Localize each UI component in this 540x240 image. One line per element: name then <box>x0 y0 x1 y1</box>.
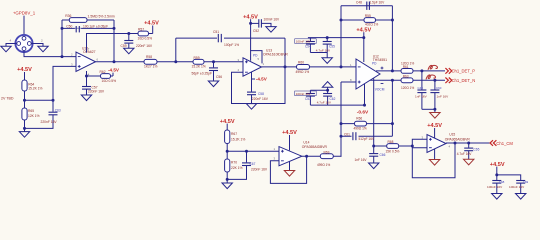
junction U12 IN- feedback tap <box>340 65 343 68</box>
junction node n2 <box>212 60 215 63</box>
capacitor C55 <box>316 38 335 53</box>
power port +GPD8V_1 <box>13 11 36 16</box>
svg-text:C51: C51 <box>213 30 219 34</box>
ground C57 <box>81 95 91 101</box>
wire connector right pin to ground <box>31 44 43 47</box>
port Ch1_DET_N <box>445 78 475 84</box>
ground C65 <box>464 159 474 165</box>
junction bias node left <box>23 99 26 102</box>
resistor R70 <box>225 151 243 172</box>
port Ch1_CM <box>490 140 513 146</box>
wire cluster top rail <box>310 89 327 91</box>
junction R66 left <box>340 122 343 125</box>
power port +4.5V above U14 <box>282 130 297 150</box>
svg-text:22K 1%: 22K 1% <box>231 166 243 170</box>
svg-text:R57: R57 <box>138 28 144 32</box>
noerc marker lower <box>426 75 435 79</box>
capacitor C60 on OUT- <box>430 80 449 109</box>
wire R60 to U12 IN- <box>310 66 357 68</box>
power port -4.5V below U13 <box>252 76 268 81</box>
junction OUT+ cap tap <box>420 69 423 72</box>
svg-text:C61: C61 <box>344 132 350 136</box>
svg-text:C54: C54 <box>305 45 311 49</box>
svg-text:R62: R62 <box>100 70 106 74</box>
svg-text:R66: R66 <box>356 116 362 120</box>
wire ground stub outputs <box>434 109 436 112</box>
svg-text:100.1pF ±0.05pF: 100.1pF ±0.05pF <box>83 25 108 29</box>
power port +4.5V above U12 <box>356 27 371 37</box>
svg-text:Ch1_DET_P: Ch1_DET_P <box>452 68 476 73</box>
svg-text:R63: R63 <box>403 75 409 79</box>
svg-text:R70: R70 <box>231 161 237 165</box>
ground C58 <box>246 104 256 110</box>
U12 polarity marks <box>358 67 361 84</box>
wire feedback left vertical <box>61 20 63 57</box>
junction bias node right <box>52 99 55 102</box>
power port +4.5V above U15 <box>427 123 442 138</box>
capacitor C69 <box>509 180 529 194</box>
power port +4.5V above R57 <box>144 21 159 34</box>
svg-text:VOCM: VOCM <box>375 87 385 91</box>
wire U12 IN+ feedback vertical <box>340 82 342 157</box>
wire divider node to U14 IN+ <box>227 150 279 152</box>
svg-text:120Ω 1%: 120Ω 1% <box>401 86 414 90</box>
svg-text:1.5pF 16V: 1.5pF 16V <box>370 1 386 5</box>
ground left of connector <box>1 46 11 52</box>
resistor R62 <box>87 70 117 83</box>
svg-text:C58: C58 <box>258 92 264 96</box>
junction OUT- feedback <box>391 79 394 82</box>
wire U13 output <box>262 66 297 68</box>
svg-text:220nF 16V: 220nF 16V <box>41 120 58 124</box>
plus mark OUT+ <box>381 67 384 70</box>
junction C50 left <box>61 27 64 30</box>
junction VCM divider node <box>226 150 229 153</box>
ground C59 <box>124 48 134 54</box>
wire R67 to node <box>226 144 228 152</box>
ground U14 <box>284 171 294 177</box>
port Ch1_DET_P <box>445 68 475 74</box>
wire U14 V- stub <box>289 161 291 171</box>
svg-text:220nF 16V: 220nF 16V <box>136 44 153 48</box>
svg-text:OPA365AIDBVR: OPA365AIDBVR <box>445 138 471 142</box>
svg-text:+4.5V: +4.5V <box>490 162 505 168</box>
svg-text:1nF 16V: 1nF 16V <box>437 95 450 99</box>
svg-text:R65: R65 <box>28 109 34 113</box>
svg-text:Ch1_CM: Ch1_CM <box>496 141 513 146</box>
pin 2 label <box>41 39 43 43</box>
wire U12 IN+ entry <box>341 81 356 83</box>
capacitor C62 <box>317 90 336 105</box>
wire divider ground stub <box>226 179 228 183</box>
wire C51 line down to U13 output node <box>284 38 286 67</box>
svg-text:R55: R55 <box>365 14 371 18</box>
op-amp U16 <box>76 52 96 72</box>
junction bottom right node <box>495 173 498 176</box>
svg-text:220nF 16V: 220nF 16V <box>251 167 268 171</box>
ground output caps <box>430 113 440 119</box>
svg-text:10Ω 0.5%: 10Ω 0.5% <box>102 79 117 83</box>
wire U15 output <box>446 142 490 144</box>
wire cluster bottom rail <box>310 52 327 54</box>
svg-text:U15: U15 <box>449 133 455 137</box>
pin 8 label U12 <box>350 78 352 82</box>
capacitor C54 <box>295 38 317 53</box>
svg-text:15.2K 1%: 15.2K 1% <box>192 65 206 69</box>
capacitor C67 <box>227 151 268 179</box>
capacitor C49 on OUT+ <box>415 71 428 109</box>
ground divider U14 <box>222 183 232 189</box>
ground cluster -0.6V inverted <box>322 82 332 88</box>
wire R66 right vertical <box>391 80 393 136</box>
svg-text:C65: C65 <box>474 148 480 152</box>
wire U12 OUT- line <box>370 79 445 81</box>
U13 labels <box>263 49 288 57</box>
ground C66 <box>369 163 379 169</box>
capacitor C51 feedback <box>176 30 285 47</box>
pin 6 label U16 <box>97 58 99 62</box>
svg-text:C52: C52 <box>253 29 259 33</box>
svg-text:402Ω 1%: 402Ω 1% <box>365 23 378 27</box>
wire U13 V+ supply <box>250 23 252 50</box>
wire -0.6V rail <box>310 104 364 106</box>
junction R66 right <box>391 122 394 125</box>
wire R69 to feedback node <box>333 136 341 156</box>
noerc marker upper <box>428 65 437 69</box>
ground C56 <box>208 81 218 87</box>
capacitor C58 <box>247 79 269 104</box>
wire R64 to node <box>24 91 26 100</box>
pin 3 label U13 <box>238 58 240 62</box>
svg-text:-4.5V: -4.5V <box>108 68 120 73</box>
wire R65 to bottom rail <box>24 120 26 128</box>
junction C61 left <box>340 135 343 138</box>
wire U16 V+ to R57 node <box>87 34 129 53</box>
wire U13 feedback loop <box>232 67 286 104</box>
resistor R62b <box>401 75 414 90</box>
svg-text:15.2K 1%: 15.2K 1% <box>231 138 245 142</box>
net label 2V TBD <box>1 97 14 101</box>
svg-text:Ch1_DET_N: Ch1_DET_N <box>452 78 476 83</box>
junction U14 output <box>305 155 308 158</box>
power port -4.5V right of R62 <box>108 68 120 76</box>
capacitor C57 <box>82 76 105 95</box>
svg-text:R36: R36 <box>65 14 71 18</box>
U16 labels <box>82 46 96 54</box>
svg-text:100nF 16V: 100nF 16V <box>296 40 312 44</box>
junction node n1 <box>174 60 177 63</box>
resistor R55 <box>341 14 392 26</box>
wire +4.5V to R64 <box>24 73 26 81</box>
svg-text:100nF 16V: 100nF 16V <box>487 185 503 189</box>
svg-text:C68: C68 <box>499 180 505 184</box>
resistor R59 <box>192 56 206 69</box>
ground cluster +4.5V <box>322 58 332 64</box>
power port +4.5V left <box>17 67 32 74</box>
resistor R66 <box>341 116 392 130</box>
wire ground stub divider <box>24 128 26 131</box>
ground C52 <box>266 27 276 33</box>
fda U12 <box>356 59 380 89</box>
wire +4.5V rail to U12 <box>308 37 364 39</box>
svg-text:C48: C48 <box>356 1 362 5</box>
svg-text:C60: C60 <box>436 86 442 90</box>
U16 input polarity marks <box>78 57 81 68</box>
junction C65 tap <box>467 142 470 145</box>
pin 1 label U14 <box>274 147 276 151</box>
junction input node <box>61 55 64 58</box>
junction U15 feedback tap <box>411 145 414 148</box>
pin 4 label U16 <box>88 72 90 76</box>
junction VOCM RC node <box>372 145 375 148</box>
ground C68 <box>492 194 502 200</box>
wire output node to R58 <box>114 61 144 63</box>
resistor R64 <box>22 80 43 91</box>
ground U15 <box>429 160 439 166</box>
svg-text:OPA365AIDBVR: OPA365AIDBVR <box>302 145 328 149</box>
ground right of connector <box>38 46 48 52</box>
U12 labels <box>372 54 387 91</box>
junction caps rail <box>433 108 436 111</box>
svg-text:499Ω 1%: 499Ω 1% <box>317 163 330 167</box>
U15 polarity marks <box>429 138 432 148</box>
pin 4 label <box>10 39 12 43</box>
wire U12 V- stub <box>364 84 366 105</box>
minus mark OUT- <box>381 83 384 85</box>
wire U12 V+ supply <box>363 38 365 62</box>
resistor R58 <box>144 55 157 69</box>
capacitor C59 <box>121 34 153 49</box>
svg-text:C63: C63 <box>55 108 61 112</box>
junction +4.5V rail <box>362 36 365 39</box>
wire U12 VOCM vertical <box>373 79 375 147</box>
svg-text:1nF 16V: 1nF 16V <box>355 158 368 162</box>
pin 3 label U16 <box>71 62 73 66</box>
svg-text:220nF 16V: 220nF 16V <box>252 97 269 101</box>
capacitor C63 <box>25 100 61 128</box>
wire bias node horizontal <box>25 99 54 101</box>
svg-text:220nF 16V: 220nF 16V <box>88 90 105 94</box>
svg-text:C59: C59 <box>121 44 127 48</box>
svg-text:R67: R67 <box>231 132 237 136</box>
svg-text:U14: U14 <box>303 141 309 145</box>
wire connector top pin to +GPD8V_1 <box>23 16 25 36</box>
capacitor C52 <box>251 18 280 33</box>
svg-text:+4.5V: +4.5V <box>144 21 159 27</box>
svg-text:1K27 1%: 1K27 1% <box>144 65 157 69</box>
svg-text:100nF 16V: 100nF 16V <box>264 18 280 22</box>
svg-text:C49: C49 <box>418 86 424 90</box>
junction V+ node <box>127 32 130 35</box>
U15 labels <box>445 133 471 142</box>
resistor R69 <box>317 150 333 167</box>
junction U16 output node <box>113 60 116 63</box>
pin 1 label U12 <box>350 63 352 67</box>
junction C67 tap <box>245 150 248 153</box>
pin 3 label U14 <box>274 157 276 161</box>
wire U13 V- stub <box>251 72 253 79</box>
svg-text:C67: C67 <box>250 162 256 166</box>
pin 3 label U15 <box>422 135 424 139</box>
svg-text:PD: PD <box>372 62 377 66</box>
svg-text:R69: R69 <box>324 150 330 154</box>
svg-text:499Ω 1%: 499Ω 1% <box>354 126 367 130</box>
svg-text:15.2K 1%: 15.2K 1% <box>28 87 42 91</box>
pin 4 label U15 <box>449 145 451 149</box>
svg-text:100nF 16V: 100nF 16V <box>296 92 312 96</box>
svg-text:1.5MΩ 5% 2.5mm: 1.5MΩ 5% 2.5mm <box>88 14 115 18</box>
junction R55 left <box>340 19 343 22</box>
svg-text:R59: R59 <box>194 56 200 60</box>
wire feedback right vertical <box>113 20 115 62</box>
op-amp U14 <box>279 147 302 166</box>
resistor R57 <box>129 28 153 41</box>
svg-text:100nF 16V: 100nF 16V <box>509 185 525 189</box>
wire connector left pin to ground <box>6 44 17 47</box>
svg-text:499Ω 1%: 499Ω 1% <box>296 70 310 74</box>
wire U16 V- stub <box>86 71 88 76</box>
capacitor C50 <box>62 25 114 33</box>
svg-text:2V TBD: 2V TBD <box>1 97 14 101</box>
wire R58 to node n1 <box>157 61 193 63</box>
svg-text:OPA1610IDBVR: OPA1610IDBVR <box>263 53 288 57</box>
junction OUT- cap tap <box>433 79 436 82</box>
svg-text:R60: R60 <box>298 60 304 64</box>
junction C52 node <box>249 22 252 25</box>
pin 1 label U13 <box>263 62 265 66</box>
wire R70 to bottom rail <box>226 172 228 179</box>
connector J1 input XLR <box>15 35 32 52</box>
wire U15 V- stub <box>434 149 436 160</box>
junction OUT+ feedback <box>391 69 394 72</box>
power port +4.5V divider <box>220 119 235 130</box>
junction divider bottom rail <box>226 178 229 181</box>
junction top rail <box>326 89 329 92</box>
wire connector bottom pin to U16 inverting input <box>24 51 76 57</box>
wire C48 left vertical <box>340 6 342 67</box>
capacitor C66 <box>355 146 386 163</box>
svg-text:4.7uF 16V: 4.7uF 16V <box>317 100 332 104</box>
capacitor C56 <box>191 62 222 81</box>
resistor R68 <box>386 140 400 154</box>
svg-text:C53: C53 <box>305 97 311 101</box>
power port -0.6V below U12 <box>357 109 369 115</box>
U14 labels <box>302 141 328 149</box>
svg-text:C56: C56 <box>216 75 222 79</box>
U13 PD pin loop <box>251 51 262 64</box>
power port +4.5V bottom right <box>490 162 505 175</box>
wire U14 feedback loop <box>270 156 306 183</box>
resistor R60 <box>296 60 310 74</box>
svg-text:4.7uF 16V: 4.7uF 16V <box>457 152 473 156</box>
junction R55 right <box>391 19 394 22</box>
U13 polarity marks <box>245 60 248 72</box>
resistor R67 <box>225 130 246 144</box>
capacitor C48 feedback <box>341 1 392 10</box>
pin 2 label U16 <box>71 53 73 57</box>
U14 polarity marks <box>281 150 284 161</box>
junction U15 output feedback <box>454 142 457 145</box>
wire bias node to U16 noninverting input <box>53 66 76 100</box>
wire n1 up to C51 line <box>175 38 177 62</box>
svg-text:R61: R61 <box>403 65 409 69</box>
junction U13 output feedback <box>284 65 287 68</box>
svg-text:12K 1%: 12K 1% <box>28 114 40 118</box>
svg-text:-0.6V: -0.6V <box>357 109 369 115</box>
junction rail C55 <box>326 36 329 39</box>
capacitor C68 <box>487 175 505 194</box>
junction V- node <box>85 75 88 78</box>
svg-text:100pF 1%: 100pF 1% <box>224 43 239 47</box>
capacitor C61 <box>341 132 392 141</box>
svg-text:15K 0.5%: 15K 0.5% <box>386 150 400 154</box>
svg-text:R68: R68 <box>388 140 394 144</box>
wire caps bottom rail <box>422 108 435 110</box>
svg-text:C66: C66 <box>380 153 386 157</box>
svg-text:R58: R58 <box>146 55 152 59</box>
junction bottom rail <box>23 127 26 130</box>
wire R59 to U13 <box>204 61 243 63</box>
svg-text:56pF ±0.25pF: 56pF ±0.25pF <box>191 71 212 75</box>
ground C69 <box>516 194 526 200</box>
wire U15 feedback loop <box>412 143 455 178</box>
svg-text:4.7uF 16V: 4.7uF 16V <box>316 48 331 52</box>
svg-text:C50: C50 <box>66 25 72 29</box>
pin 7 label U16 <box>88 47 90 51</box>
junction C50 right <box>113 27 116 30</box>
svg-text:10Ω 0.5%: 10Ω 0.5% <box>138 36 153 40</box>
svg-text:C69: C69 <box>523 180 529 184</box>
junction V- rail <box>363 104 366 107</box>
resistor R36 <box>62 14 115 22</box>
wire cluster ground stub <box>326 53 328 58</box>
op-amp U15 <box>427 135 446 153</box>
svg-text:512pF 16V: 512pF 16V <box>359 137 375 141</box>
power port +4.5V above U13 <box>243 14 258 23</box>
svg-text:1nF 16V: 1nF 16V <box>415 95 428 99</box>
wire to C69 <box>497 175 521 180</box>
pin 4 label U13 <box>238 68 240 72</box>
wire C48 right vertical <box>391 6 393 71</box>
op-amp U13 <box>243 58 262 76</box>
svg-text:120Ω 1%: 120Ω 1% <box>401 61 414 65</box>
svg-text:+GPD8V_1: +GPD8V_1 <box>13 11 36 16</box>
svg-text:-4.5V: -4.5V <box>256 76 268 81</box>
wire R68 to U15 <box>399 139 427 146</box>
wire U14 output <box>302 155 321 157</box>
wire VOCM RC node line <box>374 145 387 147</box>
wire U12 OUT+ line <box>376 70 445 72</box>
resistor R65 <box>22 100 40 120</box>
wire inverted ground stub <box>327 87 329 90</box>
ground divider <box>19 132 29 138</box>
resistor R61 <box>401 61 414 73</box>
capacitor C65 <box>457 143 480 159</box>
wire U16 output <box>96 61 115 63</box>
capacitor C53 <box>295 90 317 105</box>
